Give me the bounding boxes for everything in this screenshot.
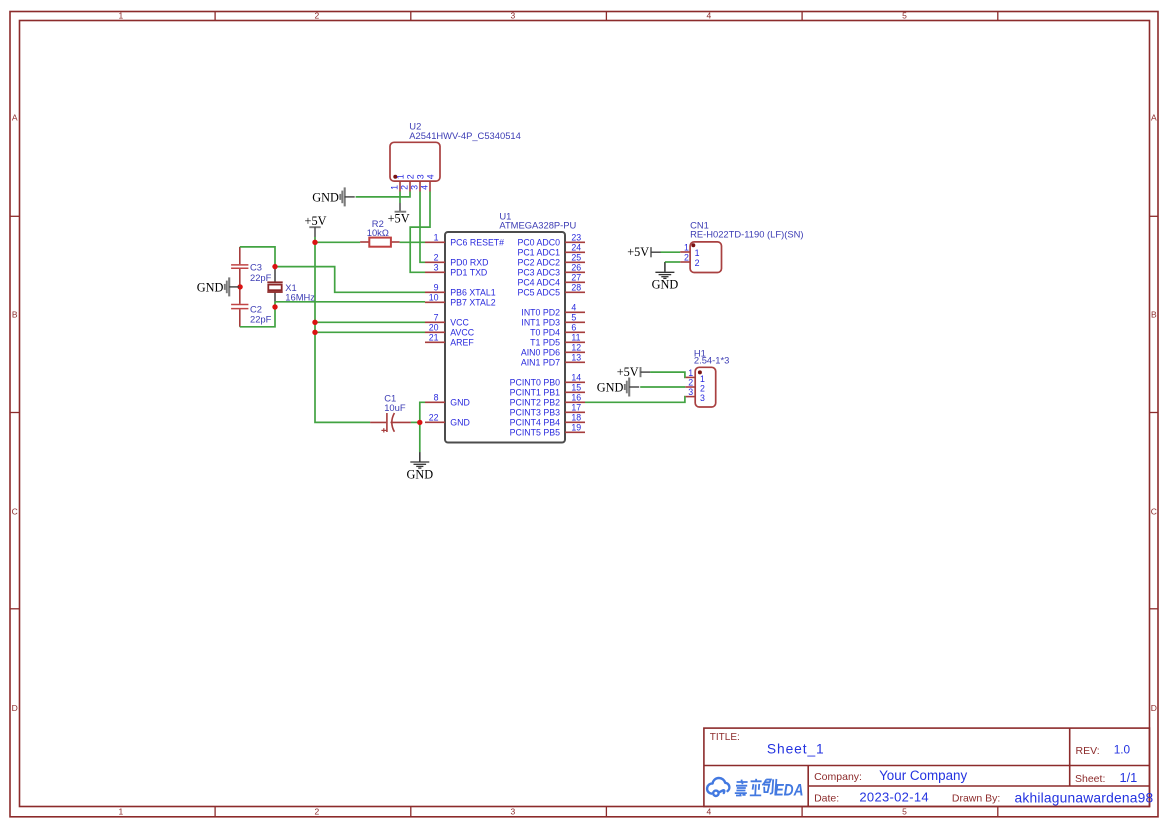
svg-text:3: 3 (410, 185, 420, 190)
U1 pin 10 PB7 XTAL2 (425, 293, 496, 308)
wire GND node to U1 pin8 (420, 402, 425, 422)
wire U1 PB2 to H1 pin3 (585, 397, 685, 403)
wire CN1 pin2 down to earth (664, 262, 666, 263)
connector CN1 RE-H022TD-1190 body (690, 242, 721, 273)
ground symbol GND below C1 (406, 452, 433, 481)
wire +5V to H1 pin1 (650, 372, 685, 377)
wire rail to AVCC (315, 331, 425, 333)
U1 pin 16 PCINT2 PB2 (510, 393, 585, 408)
svg-text:5: 5 (902, 807, 907, 817)
svg-text:PCINT2 PB2: PCINT2 PB2 (510, 398, 560, 408)
svg-text:Sheet_1: Sheet_1 (767, 742, 825, 757)
power flag +5V below U2 (388, 203, 410, 225)
H1 pin 1 (685, 368, 705, 384)
svg-text:15: 15 (571, 383, 581, 393)
frame row ticks right (1150, 216, 1159, 609)
svg-text:10: 10 (429, 293, 439, 303)
junction node (275,307) (272, 304, 277, 309)
U1 pin 19 PCINT5 PB5 (510, 423, 585, 438)
svg-text:GND: GND (312, 190, 339, 204)
wire crystal bottom to C2 bottom (240, 302, 275, 327)
frame row letters left (12, 113, 18, 713)
EasyEDA logo chinese characters (stylized) (735, 779, 777, 796)
svg-text:17: 17 (571, 403, 581, 413)
U1 pin 28 PC5 ADC5 (517, 283, 585, 298)
svg-text:PD0 RXD: PD0 RXD (450, 258, 488, 268)
svg-text:21: 21 (429, 333, 439, 343)
CN1 pin 1 marker dot (691, 243, 695, 247)
svg-text:T1 PD5: T1 PD5 (530, 338, 560, 348)
svg-text:26: 26 (571, 263, 581, 273)
svg-text:10uF: 10uF (384, 402, 406, 413)
svg-text:1: 1 (700, 374, 705, 384)
svg-text:PC0 ADC0: PC0 ADC0 (517, 238, 560, 248)
capacitor C1 leads (370, 421, 386, 423)
svg-text:3: 3 (511, 807, 516, 817)
svg-text:2: 2 (684, 252, 689, 262)
U1 pin 18 PCINT4 PB4 (510, 413, 585, 428)
connector H1 2.54-1x3 body (695, 367, 716, 407)
svg-text:5: 5 (571, 313, 576, 323)
wire U2 pin3 to U1 RXD (420, 192, 425, 263)
junction node (315,242.3) (312, 240, 317, 245)
U1 pin 17 PCINT3 PB3 (510, 403, 585, 418)
svg-text:INT1 PD3: INT1 PD3 (521, 318, 560, 328)
svg-text:2: 2 (315, 11, 320, 21)
U1 pin 2 PD0 RXD (425, 253, 488, 268)
svg-text:3: 3 (688, 387, 693, 397)
junction node (315,332.3) (312, 330, 317, 335)
svg-text:PB7 XTAL2: PB7 XTAL2 (450, 298, 495, 308)
U1 pin 25 PC2 ADC2 (517, 253, 585, 268)
svg-text:1.0: 1.0 (1114, 742, 1131, 756)
svg-text:B: B (1151, 310, 1157, 320)
U1 pin 4 INT0 PD2 (521, 303, 585, 318)
svg-text:1: 1 (119, 807, 124, 817)
svg-text:PC4 ADC4: PC4 ADC4 (517, 278, 560, 288)
svg-text:GND: GND (450, 418, 470, 428)
wire +5V to CN1 pin1 (660, 251, 680, 253)
svg-text:AVCC: AVCC (450, 328, 474, 338)
svg-text:GND: GND (652, 278, 679, 292)
U1 pin 3 PD1 TXD (425, 263, 487, 278)
svg-text:2: 2 (434, 253, 439, 263)
svg-text:5: 5 (902, 11, 907, 21)
svg-text:1: 1 (396, 174, 406, 179)
U1 pin 22 GND (425, 413, 470, 428)
svg-text:GND: GND (450, 398, 470, 408)
svg-text:PC6 RESET#: PC6 RESET# (450, 238, 504, 248)
svg-text:Your Company: Your Company (879, 768, 967, 783)
svg-text:1/1: 1/1 (1120, 770, 1138, 785)
svg-text:Company:: Company: (814, 771, 862, 783)
H1 pin 3 (685, 387, 705, 403)
frame row ticks left (10, 216, 20, 609)
svg-text:PCINT0 PB0: PCINT0 PB0 (510, 378, 560, 388)
capacitor C2 plates (231, 304, 248, 306)
svg-text:AIN0 PD6: AIN0 PD6 (521, 348, 560, 358)
svg-text:2.54-1*3: 2.54-1*3 (694, 354, 729, 365)
svg-text:akhilagunawardena98: akhilagunawardena98 (1015, 791, 1154, 806)
U1 pin 1 PC6 RESET# (425, 233, 504, 248)
svg-text:ATMEGA328P-PU: ATMEGA328P-PU (499, 220, 576, 231)
svg-text:B: B (12, 310, 18, 320)
capacitor C1 plus sign (381, 429, 386, 431)
svg-text:PC2 ADC2: PC2 ADC2 (517, 258, 560, 268)
U2 pin 4 (420, 174, 436, 191)
svg-text:1: 1 (390, 185, 400, 190)
capacitor C1 straight plate (386, 413, 388, 432)
wire crystal top to XTAL1 (275, 267, 425, 293)
wire crystal bottom to XTAL2 (275, 301, 425, 303)
crystal X1 plates (267, 281, 282, 283)
crystal X1 body (268, 285, 281, 291)
svg-text:PCINT1 PB1: PCINT1 PB1 (510, 388, 560, 398)
svg-text:4: 4 (707, 11, 712, 21)
svg-text:C: C (12, 507, 18, 517)
ground flag GND at C2 C3 (197, 277, 239, 296)
U1 pin 26 PC3 ADC3 (517, 263, 585, 278)
svg-text:1: 1 (434, 233, 439, 243)
svg-text:2: 2 (315, 807, 320, 817)
svg-text:27: 27 (571, 273, 581, 283)
wire C1 to GND node (411, 421, 420, 423)
svg-text:12: 12 (571, 343, 581, 353)
svg-text:PCINT4 PB4: PCINT4 PB4 (510, 418, 560, 428)
svg-text:14: 14 (571, 373, 581, 383)
power flag +5V at rail (305, 214, 327, 237)
svg-text:3: 3 (434, 263, 439, 273)
svg-text:3: 3 (511, 11, 516, 21)
U1 pin 13 AIN1 PD7 (521, 353, 585, 368)
wire U2 pin2 to GND flag (356, 192, 410, 197)
svg-text:TITLE:: TITLE: (710, 732, 740, 743)
power flag +5V at H1 (617, 365, 650, 379)
U1 pin 5 INT1 PD3 (521, 313, 585, 328)
crystal X1 pins (274, 267, 276, 282)
svg-text:2023-02-14: 2023-02-14 (859, 790, 929, 805)
svg-text:REV:: REV: (1076, 745, 1100, 757)
svg-text:25: 25 (571, 253, 581, 263)
svg-text:+5V: +5V (617, 365, 639, 379)
H1 pin 1 marker dot (698, 370, 702, 374)
IC U1 ATMEGA328P-PU body (445, 232, 565, 443)
svg-text:A: A (12, 113, 18, 123)
svg-text:22pF: 22pF (250, 272, 272, 283)
wire C3 top to crystal top (240, 247, 275, 267)
svg-text:AIN1 PD7: AIN1 PD7 (521, 358, 560, 368)
frame column ticks bottom (215, 807, 998, 817)
H1 pin 2 (685, 378, 705, 394)
U1 pin 20 AVCC (425, 323, 475, 338)
ground flag GND near U2 (312, 187, 354, 206)
junction node (240.1,286.9) (237, 284, 242, 289)
svg-text:PC5 ADC5: PC5 ADC5 (517, 288, 560, 298)
resistor R2 body (369, 238, 391, 247)
svg-text:2: 2 (400, 185, 410, 190)
frame column ticks top (215, 12, 998, 21)
svg-text:A: A (1151, 113, 1157, 123)
U1 pin 27 PC4 ADC4 (517, 273, 585, 288)
svg-text:2: 2 (695, 258, 700, 268)
svg-text:INT0 PD2: INT0 PD2 (521, 308, 560, 318)
capacitor C3 plates (231, 264, 248, 266)
U2 pin 1 marker dot (393, 175, 397, 179)
wire rail to VCC (315, 321, 425, 323)
U1 pin 23 PC0 ADC0 (517, 233, 585, 248)
title block outline (704, 728, 1150, 806)
connector U2 A2541HWV-4P body (390, 142, 440, 181)
svg-text:3: 3 (700, 393, 705, 403)
svg-text:+5V: +5V (305, 214, 327, 228)
U2 pin 3 (410, 174, 426, 191)
svg-text:4: 4 (571, 303, 576, 313)
wire +5V to R2 (315, 241, 360, 243)
svg-text:AREF: AREF (450, 338, 474, 348)
svg-text:Sheet:: Sheet: (1075, 773, 1105, 785)
svg-text:GND: GND (597, 381, 624, 395)
svg-text:1: 1 (688, 368, 693, 378)
svg-text:18: 18 (571, 413, 581, 423)
svg-text:VCC: VCC (450, 318, 469, 328)
svg-text:D: D (12, 703, 18, 713)
wire GND flag to H1 pin2 (640, 386, 685, 388)
svg-text:10kΩ: 10kΩ (367, 227, 389, 238)
svg-text:+5V: +5V (627, 245, 649, 259)
svg-text:24: 24 (571, 243, 581, 253)
svg-text:GND: GND (197, 280, 224, 294)
wire GND node down to earth (419, 422, 421, 452)
CN1 pin 2 (680, 252, 699, 268)
svg-text:22: 22 (429, 413, 439, 423)
svg-text:Drawn By:: Drawn By: (952, 793, 1000, 805)
wire CN1 pin2 wire (665, 261, 680, 263)
ground symbol GND below CN1 (652, 262, 679, 291)
svg-text:Date:: Date: (814, 793, 839, 805)
svg-text:EDA: EDA (775, 780, 804, 799)
capacitor C2 leads (239, 287, 241, 304)
frame column numbers top (119, 11, 908, 21)
svg-text:11: 11 (571, 333, 580, 343)
svg-text:PCINT3 PB3: PCINT3 PB3 (510, 408, 560, 418)
U1 pin 12 AIN0 PD6 (521, 343, 585, 358)
wire R2 to U1 RESET (400, 241, 425, 243)
U1 pin 14 PCINT0 PB0 (510, 373, 585, 388)
U2 pin 2 (400, 174, 416, 191)
power flag +5V at CN1 (627, 245, 660, 259)
CN1 pin 1 (680, 242, 699, 258)
svg-text:PC3 ADC3: PC3 ADC3 (517, 268, 560, 278)
svg-text:RE-H022TD-1190 (LF)(SN): RE-H022TD-1190 (LF)(SN) (690, 229, 803, 240)
U2 pin 1 (390, 174, 406, 191)
svg-text:16: 16 (571, 393, 581, 403)
capacitor C1 curved plate (392, 413, 395, 432)
wire +5V rail down to C1 (315, 237, 370, 422)
svg-text:1: 1 (695, 248, 700, 258)
U1 pin 21 AREF (425, 333, 474, 348)
svg-text:PC1 ADC1: PC1 ADC1 (517, 248, 560, 258)
svg-text:13: 13 (571, 353, 581, 363)
wire U2 pin4 to U1 TXD (410, 192, 430, 273)
svg-text:1: 1 (684, 242, 689, 252)
svg-text:23: 23 (571, 233, 581, 243)
svg-text:A2541HWV-4P_C5340514: A2541HWV-4P_C5340514 (409, 130, 521, 141)
svg-text:19: 19 (571, 423, 581, 433)
svg-text:+5V: +5V (388, 211, 410, 225)
svg-text:GND: GND (406, 467, 433, 481)
U1 pin 11 T1 PD5 (530, 333, 585, 348)
capacitor C3 leads (239, 247, 241, 264)
U1 pin 15 PCINT1 PB1 (510, 383, 585, 398)
ground flag GND at H1 (597, 378, 639, 397)
svg-text:PD1 TXD: PD1 TXD (450, 268, 487, 278)
junction node (275,266.6) (272, 264, 277, 269)
svg-text:28: 28 (571, 283, 581, 293)
svg-text:6: 6 (571, 323, 576, 333)
svg-text:9: 9 (434, 283, 439, 293)
svg-text:C: C (1151, 507, 1157, 517)
svg-text:3: 3 (416, 174, 426, 179)
wire U2 pin1 to +5V flag (399, 192, 401, 204)
frame row letters right (1151, 113, 1157, 713)
svg-text:2: 2 (688, 378, 693, 388)
junction node (315,322.3) (312, 320, 317, 325)
svg-text:4: 4 (420, 185, 430, 190)
EasyEDA logo cloud icon (707, 778, 729, 796)
svg-text:1: 1 (119, 11, 124, 21)
svg-text:4: 4 (707, 807, 712, 817)
svg-text:T0 PD4: T0 PD4 (530, 328, 560, 338)
svg-text:22pF: 22pF (250, 313, 272, 324)
junction node (419.8,422.4) (417, 420, 422, 425)
svg-text:PB6 XTAL1: PB6 XTAL1 (450, 288, 495, 298)
U1 pin 7 VCC (425, 313, 470, 328)
svg-text:7: 7 (434, 313, 439, 323)
frame column numbers bottom (119, 807, 908, 817)
U1 pin 24 PC1 ADC1 (517, 243, 585, 258)
resistor R2 leads (360, 241, 369, 243)
U1 pin 8 GND (425, 393, 470, 408)
svg-text:4: 4 (426, 174, 436, 179)
U1 pin 9 PB6 XTAL1 (425, 283, 496, 298)
svg-text:8: 8 (434, 393, 439, 403)
svg-text:2: 2 (406, 174, 416, 179)
svg-text:2: 2 (700, 384, 705, 394)
svg-text:D: D (1151, 703, 1157, 713)
svg-text:PCINT5 PB5: PCINT5 PB5 (510, 428, 560, 438)
svg-text:20: 20 (429, 323, 439, 333)
U1 pin 6 T0 PD4 (530, 323, 585, 338)
